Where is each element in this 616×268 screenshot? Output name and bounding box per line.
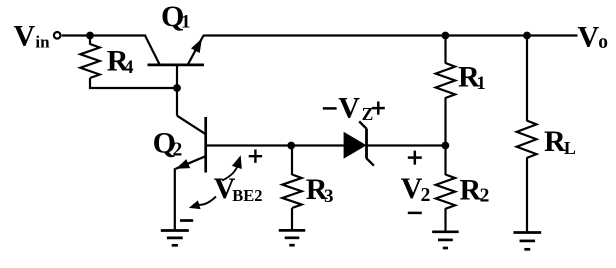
label plus VZ (372, 102, 385, 115)
wire Q2 emitter to ground (174, 168, 176, 229)
transistor Q1 emitter arrow (191, 38, 202, 53)
svg-text:Z: Z (362, 104, 374, 124)
ground below R2 (432, 232, 459, 248)
resistor R2 (436, 175, 455, 209)
svg-text:in: in (35, 32, 50, 51)
node junction R1/R2/zener (442, 142, 450, 150)
label Vin (14, 19, 51, 52)
label VZ (338, 92, 373, 125)
zener diode DZ cathode bar (365, 129, 368, 159)
svg-text:o: o (598, 32, 608, 53)
svg-text:V: V (338, 92, 360, 125)
label plus V2 (408, 151, 422, 165)
label Q1 (161, 0, 191, 33)
label R4 (107, 45, 134, 79)
transistor Q1 collector lead (145, 35, 160, 65)
label VBE2 (214, 172, 263, 205)
svg-text:V: V (14, 19, 36, 52)
zener diode DZ bottom tail (367, 158, 374, 165)
node junction Vin/R4 (86, 32, 94, 40)
label R1 (458, 60, 486, 94)
wire zener cathode to R1/R2 node (367, 144, 446, 146)
resistor RL (517, 121, 537, 159)
node junction R4/Q1 base (173, 84, 181, 92)
svg-text:2: 2 (421, 185, 431, 206)
resistor R1 (436, 63, 455, 98)
svg-text:R: R (544, 125, 566, 158)
wire R2 top lead (444, 146, 446, 176)
svg-text:L: L (564, 138, 576, 158)
wire RL top lead (526, 36, 528, 122)
wire Q2 base to R3 (206, 144, 292, 146)
wire R1 bottom lead (444, 98, 446, 146)
node junction rail/RL (523, 32, 531, 40)
label plus VBE2 (249, 150, 262, 163)
svg-text:3: 3 (324, 186, 334, 207)
svg-text:2: 2 (173, 140, 183, 161)
zener diode DZ top tail (359, 121, 366, 128)
label R2 (460, 174, 490, 207)
label R3 (306, 173, 334, 207)
wire R4 top lead (89, 36, 91, 45)
label Q2 (153, 127, 183, 161)
svg-text:4: 4 (124, 57, 134, 78)
svg-text:R: R (460, 174, 482, 207)
svg-text:1: 1 (181, 12, 191, 33)
resistor R4 (80, 44, 99, 78)
svg-text:BE2: BE2 (232, 186, 262, 205)
transistor Q2 base bar (204, 117, 207, 173)
node junction base/R3 (287, 142, 295, 150)
transistor Q1 base bar (148, 64, 205, 67)
node junction rail/R1 (442, 32, 450, 40)
arrow to VBE2 minus (189, 197, 216, 210)
wire Q1 base to Q2 collector (176, 88, 178, 116)
wire R4 bottom to Q1 base (90, 78, 177, 88)
wire R2 bottom lead (444, 208, 446, 231)
transistor Q2 collector lead (177, 116, 206, 135)
label minus VBE2 (180, 219, 193, 222)
zener diode DZ triangle (344, 132, 367, 159)
label RL (544, 125, 576, 158)
node Vin input terminal (54, 32, 61, 39)
wire R3 bottom lead (291, 208, 293, 229)
transistor Q2 emitter lead (176, 156, 206, 169)
svg-text:V: V (401, 172, 423, 205)
wire R3 node to zener anode (291, 144, 344, 146)
svg-text:V: V (578, 20, 600, 53)
transistor Q1 emitter lead (188, 36, 204, 65)
ground below Q2 (161, 231, 189, 246)
ground below RL (513, 233, 541, 250)
resistor R3 (282, 175, 301, 209)
arrow to VBE2 plus (222, 155, 242, 180)
svg-text:1: 1 (477, 74, 486, 94)
wire RL bottom lead (526, 158, 528, 232)
label minus V2 (408, 212, 422, 215)
transistor Q1 base lead (176, 65, 178, 88)
wire R3 top lead (291, 146, 293, 176)
transistor Q2 emitter arrow (176, 159, 190, 169)
wire output rail (203, 34, 578, 36)
label Vo (578, 20, 609, 53)
wire R1 top lead (444, 36, 446, 64)
label V2 (401, 172, 431, 206)
wire Vin to Q1 collector top (62, 34, 146, 36)
ground below R3 (279, 230, 306, 245)
label minus VZ (323, 107, 337, 110)
svg-text:2: 2 (480, 186, 490, 207)
